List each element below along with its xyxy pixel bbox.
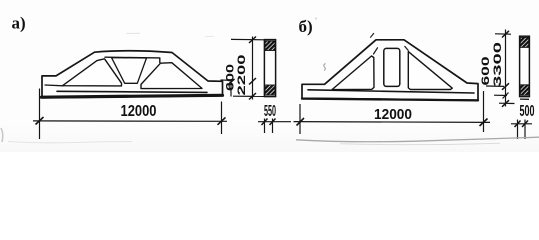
extension line chord level — [494, 94, 507, 96]
svg-text:12000: 12000 — [374, 106, 412, 123]
top extension line — [495, 33, 511, 35]
truss B centre opening rectangle — [384, 48, 400, 86]
faint dash above truss A — [126, 32, 140, 34]
bottom extension line — [499, 102, 515, 104]
tick top — [502, 31, 509, 38]
tick bottom — [249, 93, 256, 100]
truss B bottom chord top line — [308, 90, 474, 93]
svg-text:б): б) — [299, 17, 313, 36]
middle extension stub — [221, 79, 231, 81]
top extension line — [231, 38, 264, 40]
section B bottom flange hatch — [520, 85, 528, 95]
tick mid — [249, 78, 256, 85]
small scan dash under section B — [520, 98, 529, 100]
dim line vertical — [505, 30, 507, 107]
extension tick left — [264, 119, 266, 134]
tick right — [480, 119, 488, 127]
dimension 550 under section A — [258, 119, 291, 134]
svg-text:2200: 2200 — [236, 55, 248, 96]
dimension 12000 (right) — [294, 91, 491, 134]
section B rectangle — [520, 36, 530, 99]
truss A bottom chord bottom edge (heavy) — [42, 95, 223, 97]
svg-text:12000: 12000 — [121, 103, 157, 120]
truss A end block inner line — [45, 84, 63, 87]
tick 600 top — [228, 79, 235, 85]
vertical dimension 600 / 2200 (left) — [221, 37, 265, 100]
dimension line — [294, 121, 491, 124]
truss B opening left triangle — [332, 56, 374, 90]
extension tick left — [517, 120, 519, 140]
truss B bottom chord bottom edge (heavy) — [302, 99, 478, 101]
dimension line — [33, 120, 227, 122]
truss B apex inner stub right — [405, 46, 408, 50]
svg-text:600: 600 — [225, 64, 237, 91]
dim line stub — [511, 123, 532, 125]
extension tick right — [524, 120, 526, 140]
truss A outer outline — [42, 51, 223, 98]
tick top — [249, 37, 256, 44]
extension line left — [299, 104, 301, 134]
truss B apex inner stub left — [374, 48, 378, 54]
truss A bottom chord top line — [57, 91, 207, 92]
section B top flange hatch — [520, 37, 528, 47]
slash right — [522, 121, 528, 128]
faint dash above truss A right — [205, 35, 214, 37]
faint speck near b) — [315, 18, 317, 20]
truss A top chord bottom line — [105, 57, 160, 62]
truss B opening right triangle — [408, 52, 452, 90]
extension line right — [483, 91, 485, 132]
tick left — [36, 117, 44, 125]
extension line right — [221, 102, 223, 135]
apex tick artifact — [371, 33, 374, 37]
middle extension line — [486, 85, 504, 87]
extension tick right — [272, 119, 274, 134]
truss B outer outline — [302, 40, 478, 100]
dim line 2200 — [252, 37, 254, 100]
svg-text:500: 500 — [520, 103, 535, 120]
dimension 12000 (left) — [33, 89, 227, 140]
bottom extension line — [233, 95, 264, 97]
svg-text:600: 600 — [480, 57, 492, 86]
second faint streak — [340, 143, 500, 144]
section A rectangle — [264, 40, 275, 97]
slash right — [270, 119, 276, 126]
tick bottom — [502, 100, 509, 107]
tick left — [297, 118, 305, 126]
scan artifact squiggle — [324, 64, 326, 71]
dim line stub — [258, 121, 291, 123]
svg-text:3300: 3300 — [492, 42, 504, 87]
svg-text:550: 550 — [264, 103, 276, 120]
truss A opening right — [141, 63, 202, 89]
section A top flange hatch — [265, 41, 275, 51]
dim line 600 — [230, 82, 232, 97]
tick mid — [502, 83, 509, 90]
section A bottom flange hatch — [265, 85, 275, 95]
bottom scan streak left — [8, 142, 132, 143]
tick chord — [503, 93, 509, 99]
bottom-left page curl mark — [1, 128, 3, 142]
vertical dimension 600 / 3300 (right) — [486, 30, 515, 107]
svg-text:а): а) — [12, 14, 26, 33]
slash left — [515, 121, 521, 128]
bottom scan streak right — [296, 137, 539, 142]
truss A opening left — [63, 59, 122, 86]
dimension 500 under section B — [511, 120, 532, 140]
truss A middle funnel opening — [112, 58, 147, 84]
tick right — [218, 117, 226, 124]
slash left — [262, 119, 268, 126]
extension line left — [39, 89, 41, 140]
